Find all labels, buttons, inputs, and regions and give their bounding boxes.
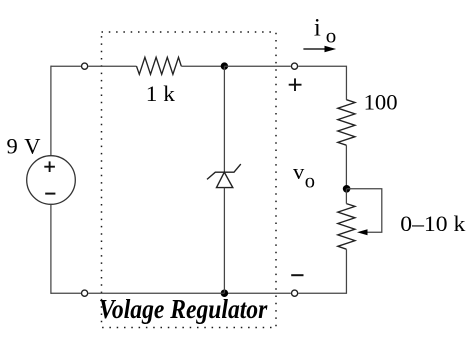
terminal: bottom-left open circle [82, 290, 88, 296]
arrowhead: potentiometer wiper [357, 229, 368, 235]
plus sign (output polarity) [289, 78, 302, 91]
wire: left vertical (top) [50, 66, 52, 156]
wire: node A down to zener cathode [223, 66, 225, 172]
wire: top-left corner to left terminal [51, 65, 81, 67]
svg-text:o: o [326, 23, 337, 47]
minus sign (output polarity) [291, 274, 303, 276]
wire: bottom-left terminal to bottom node [88, 292, 224, 294]
node B: junction dot right [343, 185, 351, 193]
wire: resistor 100 to node B [345, 145, 347, 189]
terminal: top-right open circle [291, 63, 297, 69]
svg-text:0–10 k: 0–10 k [400, 211, 466, 236]
wire: node B to potentiometer top [345, 189, 347, 204]
svg-text:V: V [24, 133, 40, 158]
resistor 100 [338, 100, 355, 146]
voltage source plus sign [44, 161, 55, 172]
zener diode D1 triangle [217, 172, 233, 187]
resistor R 1 k [137, 57, 182, 74]
wire: node A to top-right terminal [224, 65, 290, 67]
node C: junction dot bottom [221, 289, 229, 297]
voltage source V1 circle [27, 156, 76, 205]
svg-text:v: v [293, 159, 305, 184]
potentiometer 0-10 k zigzag [338, 204, 355, 250]
terminal: top-left open circle [82, 63, 88, 69]
wire: potentiometer bottom to bottom-right corner [298, 249, 346, 293]
svg-text:1 k: 1 k [146, 81, 176, 106]
wire: resistor 1 k to node A [181, 65, 224, 67]
node A: junction dot top [221, 62, 229, 70]
arrow for current i_o [303, 48, 327, 50]
svg-text:o: o [305, 171, 315, 193]
svg-text:9: 9 [7, 133, 18, 158]
svg-text:100: 100 [364, 90, 398, 115]
wire: bottom-left corner to bottom-left terminal [51, 292, 81, 294]
svg-text:Volage Regulator: Volage Regulator [99, 294, 268, 324]
voltage source minus sign [45, 193, 55, 195]
dotted box: voltage regulator boundary [102, 32, 277, 328]
zener diode D1 cathode bar with bent ends [207, 164, 241, 179]
wire: top-left terminal to resistor 1 k [88, 65, 136, 67]
wire: left vertical (bottom) [50, 204, 52, 294]
wire: top-right terminal to right corner [298, 66, 346, 100]
wire: bottom node to bottom-right terminal [224, 292, 290, 294]
wire: zener anode down to bottom node [223, 188, 225, 294]
svg-text:i: i [314, 15, 321, 42]
terminal: bottom-right open circle [292, 290, 298, 296]
wire: potentiometer wiper loop [347, 189, 382, 232]
